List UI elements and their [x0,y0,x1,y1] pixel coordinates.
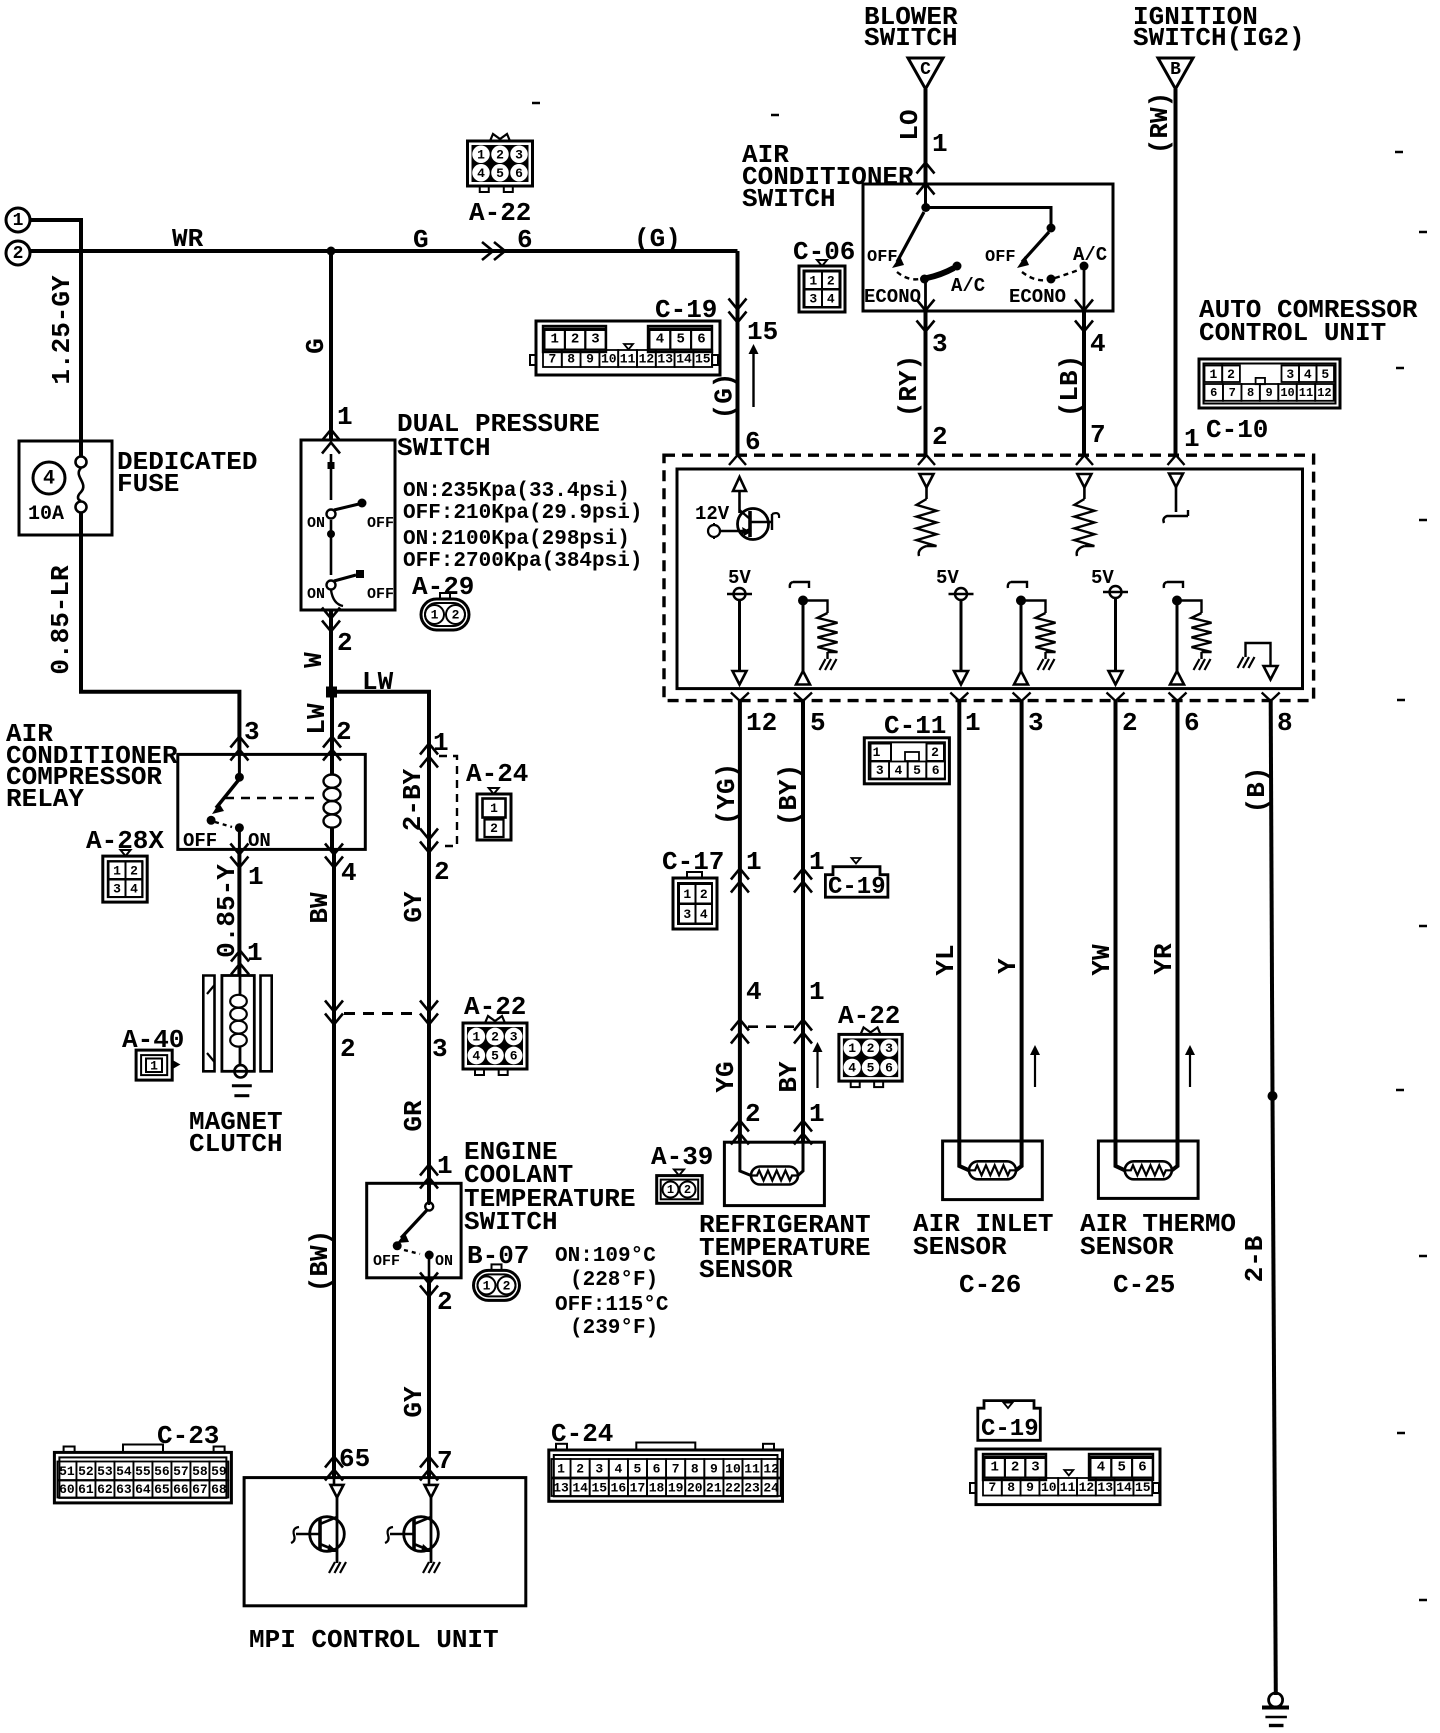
svg-text:6: 6 [510,1049,518,1064]
junction LW branch [326,687,337,698]
svg-text:6: 6 [1184,708,1200,738]
svg-text:SENSOR: SENSOR [699,1255,793,1285]
MPI input marker right [425,1485,438,1498]
svg-text:2: 2 [130,863,138,878]
svg-text:1: 1 [873,745,881,760]
svg-text:(228°F): (228°F) [570,1269,658,1292]
svg-text:58: 58 [192,1464,208,1479]
svg-text:1: 1 [965,708,981,738]
input marker pin7 triangle [1077,474,1091,488]
wire (RY) [924,311,928,455]
svg-text:10A: 10A [28,503,64,526]
svg-text:(239°F): (239°F) [570,1317,658,1340]
wire 2-BY [427,742,431,1203]
svg-text:3: 3 [809,291,817,306]
svg-text:10: 10 [725,1461,741,1476]
svg-text:LO: LO [895,109,925,140]
wire (LB) [1082,311,1086,455]
arrow up air inlet [1034,1053,1036,1087]
wire BW down [332,849,336,1477]
air conditioner switch box [863,184,1113,311]
svg-text:1: 1 [247,938,263,968]
svg-text:61: 61 [78,1482,94,1497]
output marker pin6 triangle [1170,671,1184,685]
transistor U1 internal 12V [738,491,741,513]
exit fork pin8 [1262,693,1280,702]
output marker pin8 triangle [1264,666,1278,680]
svg-text:3: 3 [885,1041,893,1056]
connector C-19 mid box [825,867,888,898]
svg-text:12: 12 [1317,386,1331,400]
wire to transistor Q2 [428,1478,431,1484]
svg-text:3: 3 [432,1034,448,1064]
svg-text:BY: BY [774,1061,804,1093]
svg-text:C-23: C-23 [157,1421,219,1451]
svg-text:MPI CONTROL UNIT: MPI CONTROL UNIT [249,1625,499,1655]
svg-text:1: 1 [990,1460,998,1476]
ground R5 [1200,652,1202,659]
exit fork pin5 [794,693,812,702]
svg-text:C-19: C-19 [981,1416,1039,1443]
svg-text:1: 1 [150,1059,158,1074]
svg-text:1: 1 [113,863,121,878]
svg-text:ECONO: ECONO [864,286,921,308]
connector crossing C-17 YG [731,869,749,880]
svg-text:SWITCH: SWITCH [864,23,958,53]
pressure switch lower hook [331,590,343,606]
transistor Q2 [404,1517,439,1552]
svg-text:3: 3 [683,907,691,922]
connector crossing relay pin4 exit [325,844,343,855]
pressure switch contact 1 [327,530,335,538]
wire YL output1 [959,701,969,1170]
svg-text:RELAY: RELAY [6,784,84,814]
exit fork pin1 [950,693,968,702]
svg-text:OFF:2700Kpa(384psi): OFF:2700Kpa(384psi) [403,550,642,573]
input marker pin2 triangle [920,474,934,488]
svg-text:15: 15 [695,352,711,367]
node terminal 2 [6,241,30,265]
svg-text:3: 3 [1028,708,1044,738]
svg-text:6: 6 [517,225,533,255]
svg-text:OFF: OFF [373,1253,400,1270]
svg-text:C: C [920,60,931,80]
svg-text:2: 2 [684,1183,691,1197]
svg-text:1: 1 [433,728,449,758]
svg-text:8: 8 [691,1461,699,1476]
svg-text:6: 6 [1210,386,1217,400]
svg-text:2: 2 [1122,708,1138,738]
svg-text:SWITCH: SWITCH [464,1207,558,1237]
svg-text:1: 1 [809,847,825,877]
ground R3 [826,652,828,659]
wire YG inside sensor [740,1142,751,1176]
svg-text:3: 3 [591,332,599,348]
connector A-28X [121,850,131,856]
svg-text:C-10: C-10 [1206,415,1268,445]
node terminal 1 [6,208,30,232]
svg-text:57: 57 [173,1464,189,1479]
svg-text:1: 1 [557,1461,565,1476]
svg-text:8: 8 [1277,708,1293,738]
ground hook output8 [1238,657,1244,668]
svg-text:2: 2 [437,1287,453,1317]
resistor R1 pin2 [925,488,928,500]
input marker pin1 triangle [1169,474,1183,488]
svg-text:FUSE: FUSE [117,469,179,499]
connector crossing A-24 pin1 [420,744,438,755]
wire B output8 to ground [1271,701,1273,1096]
svg-text:23: 23 [744,1480,760,1495]
svg-text:ON: ON [435,1253,453,1270]
svg-text:55: 55 [135,1464,151,1479]
MPI input marker left [331,1485,344,1498]
connector crossing into pressure switch [322,430,340,441]
exit fork pin2 [1107,693,1125,702]
svg-text:(YG): (YG) [712,763,742,825]
svg-text:6: 6 [932,763,940,778]
svg-text:SENSOR: SENSOR [913,1232,1007,1262]
svg-text:1: 1 [667,1183,674,1197]
svg-text:7: 7 [437,1446,453,1476]
svg-text:14: 14 [572,1480,588,1495]
connector A-39 [674,1170,684,1176]
svg-text:A/C: A/C [951,275,985,297]
svg-text:8: 8 [1247,386,1254,400]
svg-text:1: 1 [472,1030,480,1045]
svg-text:4: 4 [1097,1460,1105,1476]
svg-text:5: 5 [867,1060,875,1075]
svg-text:11: 11 [620,352,636,367]
svg-text:OFF: OFF [867,248,898,267]
svg-text:5: 5 [676,332,684,348]
svg-text:9: 9 [586,352,594,367]
svg-text:10: 10 [1041,1480,1057,1495]
magnet clutch pulley left [203,976,214,1072]
svg-text:4: 4 [656,332,664,348]
wire 0.85-Y to magnet clutch [237,849,241,975]
AC switch right output wire [1083,266,1086,311]
fuse circled 4 [33,462,65,494]
svg-text:(LB): (LB) [1055,355,1085,417]
svg-text:W: W [299,652,329,668]
svg-text:3: 3 [1031,1460,1039,1476]
auto compressor control unit U1 dashed box [664,455,1314,700]
svg-text:17: 17 [630,1480,646,1495]
svg-text:CLUTCH: CLUTCH [189,1129,283,1159]
svg-text:2: 2 [827,273,835,288]
wire LW horizontal branch [331,692,429,742]
svg-text:GY: GY [399,1386,429,1418]
svg-text:19: 19 [668,1480,684,1495]
svg-text:C-19: C-19 [828,874,886,901]
air thermo sensor box [1098,1141,1198,1198]
svg-text:5V: 5V [936,567,959,589]
connector crossing AC out 4 [1075,300,1093,311]
svg-text:2: 2 [13,244,24,264]
connector crossing BW A-22 [325,1001,343,1012]
svg-text:51: 51 [59,1464,75,1479]
svg-text:6: 6 [1138,1460,1146,1476]
connector crossing refrigerant pin2 [731,1121,749,1132]
svg-text:Y: Y [993,958,1023,974]
5V line pin1out [949,593,974,595]
svg-text:68: 68 [211,1482,227,1497]
svg-text:8: 8 [1007,1480,1015,1495]
svg-text:5: 5 [1321,367,1329,382]
svg-text:4: 4 [477,166,485,181]
pullup output3 column [1008,582,1027,588]
svg-text:OFF: OFF [367,586,394,603]
svg-text:(RY): (RY) [894,355,924,417]
svg-text:GR: GR [399,1100,429,1132]
svg-text:12: 12 [763,1461,779,1476]
connector C-10 [1199,359,1340,408]
svg-text:4: 4 [746,977,762,1007]
svg-text:CONTROL UNIT: CONTROL UNIT [1199,318,1386,348]
connector A-22 mid2 [839,1034,902,1081]
triangle terminal B ignition [1158,58,1193,89]
svg-text:12: 12 [639,352,655,367]
svg-text:A-24: A-24 [466,759,528,789]
entry fork pin7 LB [1076,455,1093,465]
svg-text:3: 3 [510,1030,518,1045]
svg-text:SWITCH(IG2): SWITCH(IG2) [1133,23,1305,53]
svg-text:6: 6 [515,166,523,181]
resistor R2 pin7 [1083,488,1086,500]
engine coolant temperature switch box [367,1183,461,1278]
dashed link YG-BY [748,1025,795,1028]
svg-text:ON:2100Kpa(298psi): ON:2100Kpa(298psi) [403,528,630,551]
svg-text:3: 3 [244,717,260,747]
svg-text:2: 2 [931,745,939,760]
svg-text:2: 2 [745,1099,761,1129]
connector crossing MPI 7 [420,1457,438,1468]
svg-text:YL: YL [931,944,961,975]
svg-text:4: 4 [43,468,55,491]
hook pin1 [1175,487,1178,512]
svg-text:14: 14 [1116,1480,1132,1495]
svg-text:A-22: A-22 [469,198,531,228]
entry fork pin1 RW [1168,455,1185,465]
svg-text:53: 53 [97,1464,113,1479]
resistor R5 pullup6 [1192,613,1212,652]
wire YW output2 [1116,701,1125,1170]
svg-text:1: 1 [483,1278,491,1293]
svg-text:1: 1 [848,1041,856,1056]
exit fork pin6 [1169,693,1187,702]
connector A-40 [136,1050,172,1080]
connector crossing MPI 65 [325,1457,343,1468]
output marker pin5 triangle [796,671,810,685]
resistor R4 pullup3 [1036,613,1056,652]
svg-text:1: 1 [248,862,264,892]
svg-text:2: 2 [576,1461,584,1476]
connector crossing relay pin1 exit [230,844,248,855]
air inlet sensor box [943,1141,1043,1200]
svg-text:1: 1 [683,887,691,902]
wire 0.85-LR from fuse down to relay [81,512,239,754]
svg-text:2: 2 [337,628,353,658]
connector C-19 top [536,321,720,375]
svg-text:13: 13 [553,1480,569,1495]
svg-text:12V: 12V [695,503,730,525]
wire inside pressure switch [330,454,333,500]
svg-text:67: 67 [192,1482,208,1497]
svg-text:59: 59 [211,1464,227,1479]
svg-text:7: 7 [672,1461,680,1476]
relay coil [330,754,334,774]
svg-text:ON: ON [307,586,325,603]
svg-text:B: B [1170,60,1181,80]
wire Y output3 [1016,701,1022,1170]
connector crossing C-19 pin15 [729,299,747,310]
svg-text:LW: LW [302,703,332,735]
connector crossing AC switch pin1 [917,163,935,174]
magnet clutch body [222,976,254,1072]
svg-text:A/C: A/C [1073,244,1107,266]
svg-text:24: 24 [763,1480,779,1495]
svg-text:6: 6 [653,1461,661,1476]
svg-text:C-26: C-26 [959,1270,1021,1300]
input marker pin6 triangle [733,477,746,491]
svg-text:G: G [301,338,331,354]
svg-text:65: 65 [339,1444,370,1474]
svg-text:1: 1 [437,1151,453,1181]
svg-text:3: 3 [515,147,523,162]
svg-text:2: 2 [503,1278,511,1293]
svg-text:0.85-LR: 0.85-LR [46,565,76,675]
svg-text:(B): (B) [1242,767,1272,814]
svg-text:15: 15 [591,1480,607,1495]
AC switch left mechanism [924,184,927,208]
svg-text:20: 20 [687,1480,703,1495]
label C-19 bottom box [978,1401,1041,1441]
dashed link BW-GY [344,1012,420,1015]
connector crossing A-22 BY [794,1020,812,1031]
arrow up near A-22 mid2 [816,1050,818,1088]
svg-text:1.25-GY: 1.25-GY [47,275,77,385]
svg-text:G: G [413,225,429,255]
svg-text:4: 4 [827,291,835,306]
svg-text:4: 4 [700,907,708,922]
transistor Q1 [310,1517,345,1552]
svg-text:(RW): (RW) [1145,92,1175,154]
connector crossing relay pin2 [323,737,341,748]
fuse element [76,457,87,468]
thermistor RT1 refrigerant [751,1167,798,1185]
connector B-07 [474,1270,520,1300]
svg-text:5V: 5V [1091,567,1114,589]
wire YR output6 [1172,701,1178,1170]
wire YG output12 [738,701,742,1142]
svg-text:10: 10 [1280,386,1294,400]
svg-text:2: 2 [571,332,579,348]
output marker pin12 triangle [733,671,747,685]
svg-text:4: 4 [341,858,357,888]
svg-text:52: 52 [78,1464,94,1479]
wire W below pressure switch [322,608,340,619]
svg-text:1: 1 [477,147,485,162]
svg-text:4: 4 [1090,329,1106,359]
triangle terminal C blower [908,58,943,89]
svg-text:1: 1 [431,608,439,623]
magnet clutch pulley right [261,976,272,1072]
svg-text:5V: 5V [728,567,751,589]
ground below magnet clutch [232,1084,252,1087]
MPI control unit box [244,1478,526,1606]
svg-text:1: 1 [550,332,558,348]
svg-text:12: 12 [746,708,777,738]
wire LW down to relay coil [330,692,334,755]
svg-text:15: 15 [1135,1480,1151,1495]
svg-text:ON:109°C: ON:109°C [555,1245,656,1268]
svg-text:2: 2 [452,608,460,623]
svg-text:3: 3 [1286,367,1294,382]
svg-text:SENSOR: SENSOR [1080,1232,1174,1262]
svg-text:22: 22 [725,1480,741,1495]
svg-text:9: 9 [710,1461,718,1476]
svg-text:4: 4 [1304,367,1312,382]
svg-text:63: 63 [116,1482,132,1497]
wire BY output5 [801,701,805,1142]
svg-text:0.85-Y: 0.85-Y [212,864,242,958]
svg-text:3: 3 [595,1461,603,1476]
output marker pin3 triangle [1014,671,1028,685]
svg-text:(G): (G) [710,373,740,420]
coolant switch contact [428,1190,430,1205]
svg-text:1: 1 [809,1099,825,1129]
resistor R3 pullup5 [818,613,838,652]
svg-text:7: 7 [1090,420,1106,450]
svg-text:(G): (G) [634,224,681,254]
svg-text:60: 60 [59,1482,75,1497]
wire (G) vertical to control unit pin6 [736,251,740,455]
svg-text:16: 16 [611,1480,627,1495]
svg-text:64: 64 [135,1482,151,1497]
refrigerant temperature sensor box [724,1142,824,1205]
exit fork pin3 [1013,693,1031,702]
svg-text:1: 1 [337,402,353,432]
svg-text:OFF: OFF [183,830,217,852]
connector crossing coolant switch out [420,1273,438,1284]
svg-text:OFF: OFF [985,248,1016,267]
svg-text:SWITCH: SWITCH [397,433,491,463]
svg-text:YG: YG [711,1061,741,1092]
connector A-29 [421,599,469,630]
entry fork pin6 [729,455,746,465]
svg-text:12: 12 [1079,1480,1095,1495]
svg-text:OFF:210Kpa(29.9psi): OFF:210Kpa(29.9psi) [403,502,642,525]
svg-text:8: 8 [567,352,575,367]
svg-text:1: 1 [809,977,825,1007]
connector crossing C-19 BY [794,869,812,880]
svg-text:3: 3 [932,329,948,359]
svg-text:LW: LW [362,667,394,697]
connector crossing A-24 pin2 [420,829,438,840]
svg-text:21: 21 [706,1480,722,1495]
thermistor RT2 air inlet [969,1161,1016,1179]
connector C-24 [549,1450,783,1501]
svg-text:5: 5 [634,1461,642,1476]
svg-text:1: 1 [809,273,817,288]
svg-text:2: 2 [1227,367,1235,382]
svg-text:1: 1 [746,847,762,877]
svg-text:13: 13 [657,352,673,367]
svg-text:56: 56 [154,1464,170,1479]
wire G branch down to dual pressure switch [329,251,333,440]
svg-text:62: 62 [97,1482,113,1497]
